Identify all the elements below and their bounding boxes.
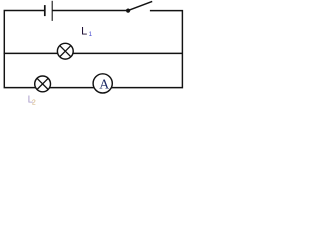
battery positive plate (long thin): [51, 1, 53, 21]
lamp L1: [57, 43, 73, 59]
label L2: [28, 95, 36, 107]
battery negative plate (short thick): [44, 5, 46, 16]
lamp L2: [35, 76, 51, 92]
svg-text:L: L: [81, 25, 87, 37]
switch pivot dot: [126, 9, 130, 13]
svg-text:A: A: [99, 76, 109, 91]
svg-text:1: 1: [89, 31, 93, 38]
wire: top rail from battery to switch: [52, 10, 126, 12]
svg-text:2: 2: [32, 100, 36, 106]
wire: middle rail through L1: [4, 52, 183, 54]
ammeter A1: [93, 74, 112, 93]
switch blade (open): [128, 1, 152, 10]
wire: outer loop (top-left segment, left rail, bottom rail, right rail, top-right segment): [4, 11, 182, 88]
label L1: [81, 25, 92, 38]
